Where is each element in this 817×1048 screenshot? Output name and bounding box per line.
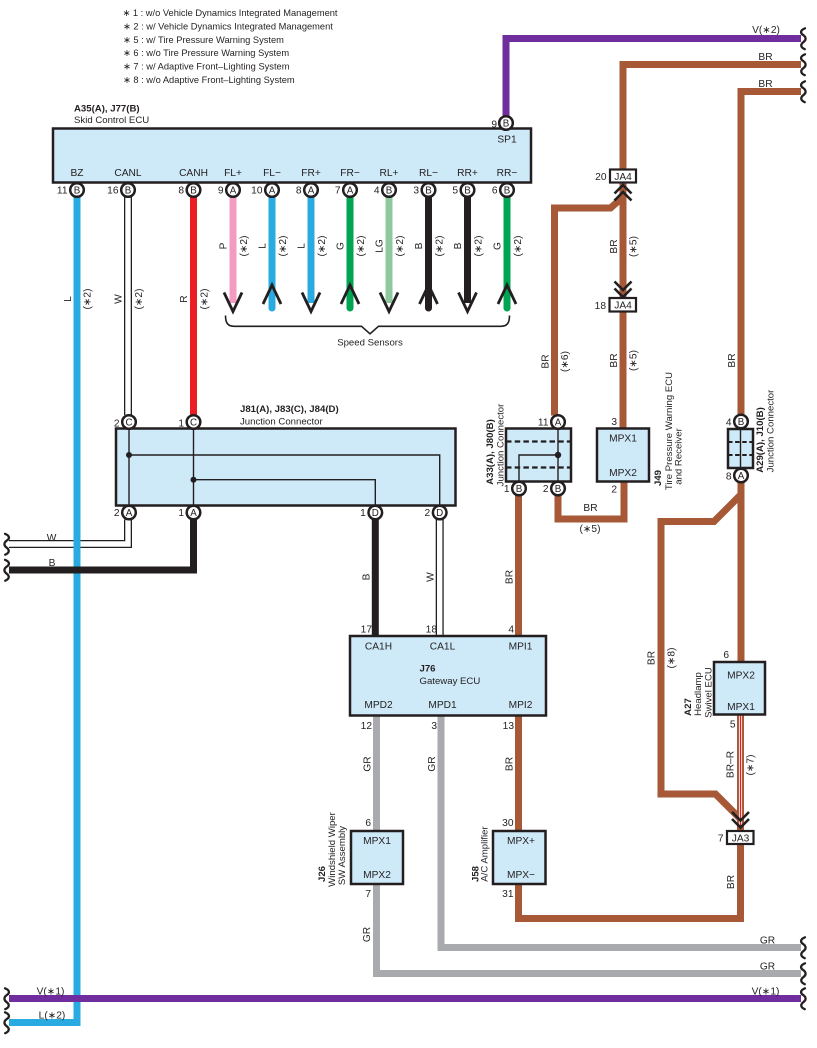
svg-text:Junction Connector: Junction Connector xyxy=(766,389,777,472)
svg-text:(∗8): (∗8) xyxy=(667,648,678,669)
svg-text:31: 31 xyxy=(502,889,514,900)
svg-text:4: 4 xyxy=(508,625,514,636)
svg-text:∗ 1 : w/o Vehicle Dynamics Int: ∗ 1 : w/o Vehicle Dynamics Integrated Ma… xyxy=(123,8,338,18)
svg-text:G: G xyxy=(493,242,504,250)
svg-text:V(∗1): V(∗1) xyxy=(752,987,780,998)
svg-text:MPX1: MPX1 xyxy=(609,434,637,445)
svg-text:(∗5): (∗5) xyxy=(629,350,640,371)
svg-text:W: W xyxy=(426,572,437,582)
svg-text:D: D xyxy=(372,508,379,519)
svg-text:CA1H: CA1H xyxy=(365,642,392,653)
svg-text:L: L xyxy=(297,243,308,249)
svg-text:V(∗1): V(∗1) xyxy=(37,987,65,998)
wire BR A33 pin 1B down to J76 pin 4 MPI1 xyxy=(515,495,522,636)
svg-text:MPX+: MPX+ xyxy=(507,836,535,847)
JA4 pin 18 chevrons down xyxy=(615,282,632,291)
svg-text:7: 7 xyxy=(718,834,724,845)
svg-text:A29(A), J10(B): A29(A), J10(B) xyxy=(755,407,766,473)
svg-text:MPX1: MPX1 xyxy=(363,836,391,847)
svg-text:MPX2: MPX2 xyxy=(609,468,637,479)
svg-text:BR: BR xyxy=(726,875,737,889)
svg-text:4: 4 xyxy=(374,186,380,197)
svg-text:R: R xyxy=(179,295,190,302)
svg-text:(∗7): (∗7) xyxy=(746,755,757,776)
junction connector J81(A) J83(C) J84(D) box xyxy=(116,429,456,506)
wire BR J49 pin 2 to A33 pin 2B, (*5) xyxy=(558,482,624,520)
svg-text:L: L xyxy=(258,243,269,249)
svg-text:RL+: RL+ xyxy=(380,168,399,179)
speed sensor wire B at pin x=467.5 xyxy=(464,197,471,303)
wire W CANL skid ECU pin 16 to J81 pin 2C xyxy=(124,197,132,415)
svg-text:7: 7 xyxy=(335,186,341,197)
svg-text:BR: BR xyxy=(758,52,772,63)
svg-text:J76: J76 xyxy=(420,664,436,675)
svg-text:2: 2 xyxy=(114,419,120,430)
svg-text:MPX2: MPX2 xyxy=(363,870,391,881)
svg-text:16: 16 xyxy=(107,186,119,197)
J81 internal bus lines xyxy=(129,429,440,506)
svg-text:(∗2): (∗2) xyxy=(239,236,250,257)
svg-text:D: D xyxy=(436,508,443,519)
svg-text:FL+: FL+ xyxy=(224,168,242,179)
svg-text:B: B xyxy=(464,186,471,197)
svg-text:MPX2: MPX2 xyxy=(727,671,755,682)
svg-text:B: B xyxy=(516,484,523,495)
svg-text:and Receiver: and Receiver xyxy=(674,427,685,484)
svg-text:B: B xyxy=(555,484,562,495)
J81 junction dot node 2 xyxy=(126,452,132,458)
speed sensor wire G at pin x=507 xyxy=(504,197,511,308)
junction connector A29(A) J10(B) box xyxy=(728,429,753,468)
svg-text:A33(A), J80(B): A33(A), J80(B) xyxy=(485,419,496,485)
svg-text:JA4: JA4 xyxy=(614,301,632,312)
svg-text:∗ 6 : w/o Tire Pressure Warnin: ∗ 6 : w/o Tire Pressure Warning System xyxy=(123,48,289,58)
svg-text:BR: BR xyxy=(505,757,516,771)
svg-text:1: 1 xyxy=(360,508,366,519)
svg-text:B: B xyxy=(125,186,132,197)
svg-text:Junction Connector: Junction Connector xyxy=(496,403,507,486)
left edge break B xyxy=(4,560,9,581)
junction JA4 pin 20 box xyxy=(610,170,636,183)
svg-text:3: 3 xyxy=(413,186,419,197)
A29 internal grid xyxy=(740,429,742,468)
svg-text:(∗2): (∗2) xyxy=(356,236,367,257)
svg-text:18: 18 xyxy=(595,301,607,312)
svg-text:GR: GR xyxy=(362,927,373,942)
svg-text:JA3: JA3 xyxy=(732,833,750,844)
svg-text:11: 11 xyxy=(57,186,68,197)
svg-text:∗ 2 : w/ Vehicle Dynamics Inte: ∗ 2 : w/ Vehicle Dynamics Integrated Man… xyxy=(123,21,333,31)
JA3 chevrons down xyxy=(732,812,749,821)
svg-text:W: W xyxy=(47,533,57,544)
svg-text:B: B xyxy=(74,186,81,197)
ECU J58 A/C Amplifier box xyxy=(493,831,546,884)
wire BR-R (*7) brown base A27 pin 5 to JA3 pin 7 xyxy=(737,715,744,832)
left edge break W xyxy=(4,534,9,555)
svg-text:B: B xyxy=(49,558,56,569)
svg-text:5: 5 xyxy=(452,186,458,197)
svg-text:2: 2 xyxy=(114,508,120,519)
svg-text:GR: GR xyxy=(363,756,374,771)
svg-text:L(∗2): L(∗2) xyxy=(39,1011,66,1022)
J81 junction dot node 1 xyxy=(191,477,197,483)
svg-text:GR: GR xyxy=(760,962,775,973)
svg-text:A: A xyxy=(308,186,315,197)
svg-text:MPD2: MPD2 xyxy=(364,700,393,711)
wire W J81 pin 2D to J76 pin 18 CA1L xyxy=(436,520,444,637)
svg-text:Swivel ECU: Swivel ECU xyxy=(704,667,715,718)
wire W J81 pin 2A to left edge xyxy=(9,520,128,545)
svg-text:RR−: RR− xyxy=(497,168,518,179)
svg-text:18: 18 xyxy=(426,625,438,636)
svg-text:BR: BR xyxy=(727,353,738,367)
svg-text:3: 3 xyxy=(431,721,437,732)
svg-text:A: A xyxy=(126,508,133,519)
JA4 pin 20 chevrons up xyxy=(615,185,632,194)
wire BR branch (*6) splice to A33 pin 11A xyxy=(555,197,624,416)
ECU A27 Headlamp Swivel ECU box xyxy=(714,662,765,715)
svg-text:8: 8 xyxy=(178,186,184,197)
svg-text:Skid Control ECU: Skid Control ECU xyxy=(74,115,149,126)
svg-text:BR: BR xyxy=(609,353,620,367)
svg-text:10: 10 xyxy=(251,186,263,197)
svg-text:FR−: FR− xyxy=(340,168,360,179)
speed sensor wire L at pin x=311 xyxy=(308,197,315,303)
svg-text:6: 6 xyxy=(365,818,371,829)
ECU A35(A) J77(B) Skid Control ECU box xyxy=(53,129,531,183)
svg-text:MPD1: MPD1 xyxy=(428,700,457,711)
A33 internal dashed rows xyxy=(506,442,571,468)
svg-text:30: 30 xyxy=(502,818,514,829)
svg-text:12: 12 xyxy=(361,721,373,732)
svg-text:17: 17 xyxy=(361,625,373,636)
ECU J49 Tire Pressure Warning ECU box xyxy=(597,429,649,482)
wire BR (*8) splice from A29 leg down and over to JA3 xyxy=(661,495,741,827)
speed sensors brace xyxy=(226,316,510,334)
junction JA3 pin 7 box xyxy=(727,831,754,844)
svg-text:B: B xyxy=(414,242,425,249)
wire R CANH skid ECU pin 8 to J81 pin 1C xyxy=(190,197,197,415)
svg-text:11: 11 xyxy=(538,418,549,429)
svg-text:13: 13 xyxy=(503,721,515,732)
svg-text:(∗2): (∗2) xyxy=(83,289,94,310)
svg-text:5: 5 xyxy=(730,720,736,731)
svg-text:B: B xyxy=(738,417,745,428)
svg-text:(∗2): (∗2) xyxy=(395,236,406,257)
speed sensor wire L at pin x=272 xyxy=(269,197,276,308)
A33 internal bus line xyxy=(519,429,558,482)
svg-text:A: A xyxy=(347,186,354,197)
svg-text:G: G xyxy=(336,242,347,250)
svg-text:(∗2): (∗2) xyxy=(435,236,446,257)
svg-text:BZ: BZ xyxy=(70,168,83,179)
junction connector A33(A) J80(B) box xyxy=(506,429,571,482)
svg-text:Speed Sensors: Speed Sensors xyxy=(337,338,403,349)
svg-text:∗ 8 : w/o Adaptive Front–Light: ∗ 8 : w/o Adaptive Front–Lighting System xyxy=(123,75,295,85)
svg-text:B: B xyxy=(425,186,432,197)
svg-text:CANH: CANH xyxy=(179,168,208,179)
svg-text:(∗6): (∗6) xyxy=(560,351,571,372)
svg-text:A: A xyxy=(230,186,237,197)
svg-text:RL−: RL− xyxy=(419,168,438,179)
wire BR-R red stripe xyxy=(739,715,742,829)
wire BR A29 pin 8A down to A27 pin 6 xyxy=(738,483,745,663)
svg-text:A35(A), J77(B): A35(A), J77(B) xyxy=(74,104,140,115)
speed sensor wire P at pin x=233 xyxy=(230,197,237,303)
svg-text:Junction Connector: Junction Connector xyxy=(240,417,323,428)
svg-text:A/C Amplifier: A/C Amplifier xyxy=(480,825,491,881)
svg-text:7: 7 xyxy=(365,889,371,900)
svg-text:B: B xyxy=(504,186,511,197)
wire BR J76 pin 13 MPI2 down to J58 pin 30 MPX+ xyxy=(515,716,522,832)
svg-text:8: 8 xyxy=(296,186,302,197)
svg-text:J81(A), J83(C), J84(D): J81(A), J83(C), J84(D) xyxy=(240,404,339,415)
svg-text:(∗5): (∗5) xyxy=(629,236,640,257)
wire GR J76 pin 12 MPD2 to J26 pin 6 MPX1 xyxy=(373,716,380,832)
svg-text:6: 6 xyxy=(492,186,498,197)
svg-text:2: 2 xyxy=(543,484,549,495)
svg-text:BR: BR xyxy=(583,503,597,514)
svg-text:(∗5): (∗5) xyxy=(580,524,601,535)
speed sensor wire LG at pin x=389 xyxy=(386,197,393,303)
svg-text:MPX−: MPX− xyxy=(507,870,535,881)
svg-text:BR–R: BR–R xyxy=(726,751,737,778)
svg-text:C: C xyxy=(125,418,132,429)
svg-text:6: 6 xyxy=(723,650,729,661)
svg-text:3: 3 xyxy=(611,417,617,428)
junction JA4 pin 18 box xyxy=(610,298,637,312)
wire V(*1) violet across bottom xyxy=(9,995,801,1002)
svg-text:1: 1 xyxy=(178,419,184,430)
wire L BZ skid ECU pin 11 down to bottom left edge, L(*2) xyxy=(9,197,77,1023)
svg-text:BR: BR xyxy=(609,239,620,253)
svg-text:SP1: SP1 xyxy=(497,135,517,146)
svg-text:∗ 5 : w/ Tire Pressure Warning: ∗ 5 : w/ Tire Pressure Warning System xyxy=(123,35,284,45)
top right edge break V(*2) xyxy=(801,28,806,49)
svg-text:B: B xyxy=(453,242,464,249)
svg-text:RR+: RR+ xyxy=(457,168,478,179)
wire GR J26 pin 7 MPX2 down and right to right edge xyxy=(377,884,802,974)
svg-text:20: 20 xyxy=(595,172,607,183)
svg-text:A: A xyxy=(269,186,276,197)
wire GR J76 pin 3 MPD1 down and right to right edge xyxy=(441,716,801,948)
svg-text:MPX1: MPX1 xyxy=(727,702,755,713)
svg-text:(∗2): (∗2) xyxy=(200,289,211,310)
speed sensor wire B at pin x=428.5 xyxy=(425,197,432,308)
svg-text:B: B xyxy=(190,186,197,197)
wire B J81 pin 1A to left edge xyxy=(9,520,194,571)
speed sensor wire G at pin x=350 xyxy=(347,197,354,308)
wire BR from right edge to JA4 pin 20 and down to J49 pin 3 xyxy=(623,65,801,429)
svg-text:V(∗2): V(∗2) xyxy=(752,25,780,36)
svg-text:GR: GR xyxy=(427,756,438,771)
svg-text:A: A xyxy=(190,508,197,519)
svg-text:BR: BR xyxy=(541,354,552,368)
svg-text:CA1L: CA1L xyxy=(430,642,456,653)
svg-text:CANL: CANL xyxy=(114,168,142,179)
svg-text:2: 2 xyxy=(611,485,617,496)
svg-text:(∗2): (∗2) xyxy=(474,236,485,257)
svg-text:1: 1 xyxy=(178,508,184,519)
svg-text:MPI2: MPI2 xyxy=(509,700,533,711)
svg-text:B: B xyxy=(503,119,510,130)
svg-text:(∗2): (∗2) xyxy=(513,236,524,257)
wire BR from right edge down to A29 pin 4B xyxy=(741,92,801,415)
svg-text:A: A xyxy=(738,471,745,482)
svg-text:GR: GR xyxy=(760,936,775,947)
svg-text:JA4: JA4 xyxy=(614,172,632,183)
svg-text:BR: BR xyxy=(505,570,516,584)
svg-text:(∗2): (∗2) xyxy=(134,289,145,310)
svg-text:9: 9 xyxy=(491,120,497,131)
svg-text:B: B xyxy=(361,573,372,580)
svg-text:Gateway ECU: Gateway ECU xyxy=(420,676,481,687)
svg-text:A: A xyxy=(555,418,562,429)
svg-text:SW Assembly: SW Assembly xyxy=(337,826,348,885)
switch J26 Windshield Wiper SW Assembly box xyxy=(351,831,403,884)
svg-text:FR+: FR+ xyxy=(301,168,321,179)
wire B J81 pin 1D to J76 pin 17 CA1H xyxy=(372,520,379,637)
wire SP1 violet V(*2) from skid ECU pin 9 to right edge xyxy=(506,39,801,119)
ECU J76 Gateway ECU box xyxy=(350,636,546,716)
svg-text:4: 4 xyxy=(726,418,732,429)
svg-text:8: 8 xyxy=(726,472,732,483)
svg-text:C: C xyxy=(190,418,197,429)
A33 junction dot xyxy=(555,452,561,458)
svg-text:9: 9 xyxy=(218,186,224,197)
wire BR JA3 pin 7 down and left to J58 pin 31 xyxy=(519,844,741,919)
svg-text:∗ 7 : w/ Adaptive Front–Lighti: ∗ 7 : w/ Adaptive Front–Lighting System xyxy=(123,62,290,72)
svg-text:BR: BR xyxy=(647,651,658,665)
svg-text:P: P xyxy=(219,242,230,249)
svg-text:Headlamp: Headlamp xyxy=(693,672,704,716)
svg-text:BR: BR xyxy=(758,79,772,90)
svg-text:(∗2): (∗2) xyxy=(317,236,328,257)
svg-text:MPI1: MPI1 xyxy=(509,642,533,653)
svg-text:W: W xyxy=(114,294,125,304)
svg-text:B: B xyxy=(386,186,393,197)
svg-text:L: L xyxy=(63,296,74,302)
svg-text:FL−: FL− xyxy=(263,168,281,179)
svg-text:(∗2): (∗2) xyxy=(278,236,289,257)
svg-text:LG: LG xyxy=(375,239,386,253)
svg-text:J49: J49 xyxy=(653,470,664,486)
svg-text:2: 2 xyxy=(425,508,431,519)
